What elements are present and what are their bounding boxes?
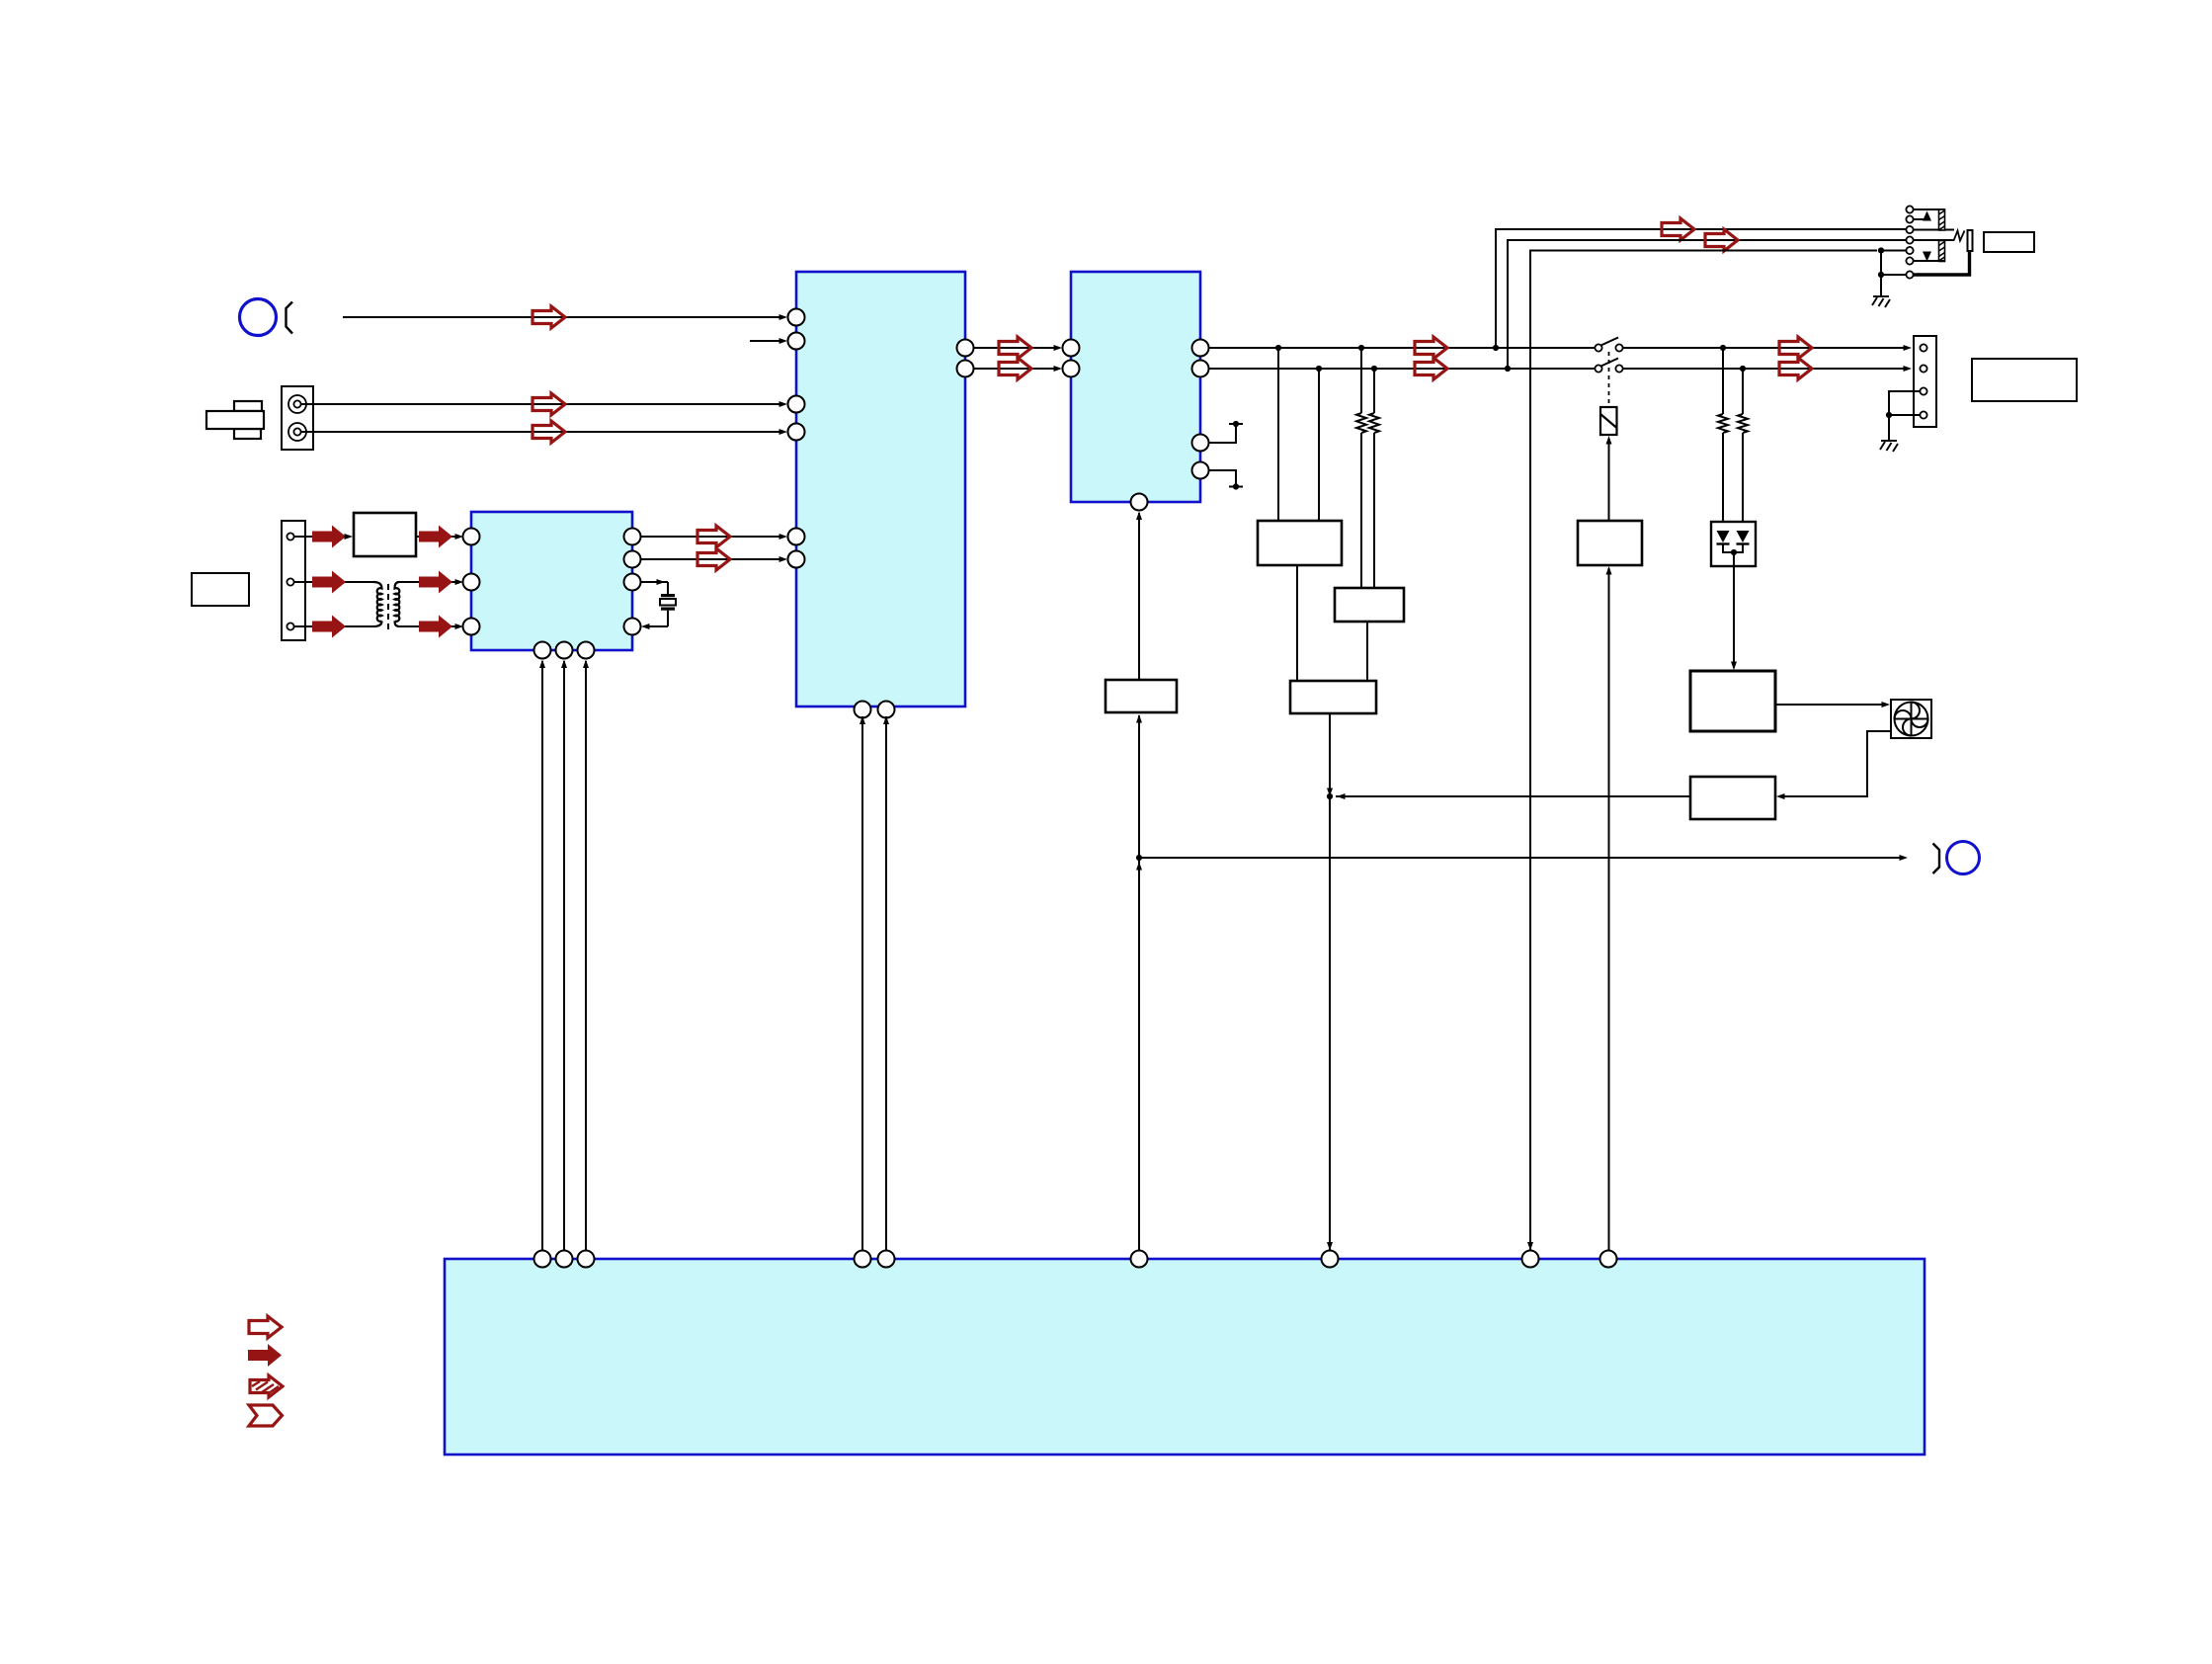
protection box C — [1290, 681, 1376, 713]
wire sysctl to display box lower — [1138, 861, 1140, 1251]
arrowhead into IC2 pin2 — [1054, 366, 1063, 372]
arrowhead protection mid — [1327, 789, 1333, 797]
signal arrow bus L out — [1779, 337, 1812, 359]
CN3 terminal 3 — [1920, 387, 1926, 394]
arrowhead into PS R4 — [641, 624, 650, 629]
signal arrow AC live — [533, 393, 565, 415]
arrowhead into fan control — [1731, 662, 1737, 671]
wire sysbox to PS x571 — [563, 661, 565, 1251]
wire box B down — [1366, 622, 1368, 681]
signal arrow R channel — [999, 358, 1031, 379]
signal arrow headphone R — [1705, 229, 1738, 251]
jack J1 terminal 1 — [1906, 206, 1913, 212]
IC1 pin1 — [788, 309, 805, 326]
CN3 terminal 1 — [1920, 344, 1926, 351]
power supply block PS — [471, 512, 632, 650]
AC inlet connector CN1 — [282, 386, 313, 450]
jack switch contact up — [1923, 211, 1931, 221]
signal arrow PS out 2 — [697, 548, 730, 570]
system control pin x1549 — [1522, 1251, 1539, 1268]
wire PS R3 to crystal — [641, 581, 669, 583]
signal arrow AC neutral — [533, 421, 565, 443]
output stage IC block IC2 — [1071, 272, 1200, 502]
tuner input circle — [240, 299, 277, 336]
node speaker gnd — [1886, 412, 1892, 418]
jack insulator bar bottom — [1939, 241, 1945, 262]
wire crystal return v — [667, 611, 669, 626]
wire bus R segment 2 — [1623, 368, 1907, 370]
arrowhead into IC2 pin1 — [1054, 345, 1063, 351]
temperature sense box — [1690, 777, 1775, 819]
wire bus R segment 1 — [1209, 368, 1596, 370]
node VCC stub — [1233, 421, 1239, 427]
diode D1a — [1717, 531, 1730, 544]
system control block — [445, 1259, 1925, 1455]
wire mute L lower — [1360, 433, 1362, 588]
wire speaker gnd drop — [1888, 415, 1890, 440]
jack gnd vertical — [1880, 251, 1882, 296]
display drive box — [1106, 680, 1177, 712]
legend signal path arrow — [249, 1316, 282, 1338]
speakers label box — [1972, 359, 2077, 401]
wire headphone det — [1530, 251, 1877, 1251]
wire temp feedback — [1336, 795, 1690, 797]
wire bus L segment 1 — [1209, 347, 1596, 349]
jack J1 terminal 7 — [1906, 271, 1913, 278]
wire mute L upper — [1360, 348, 1362, 413]
arrowhead into SP pin1 — [1904, 345, 1913, 351]
node protection junction — [1327, 793, 1333, 799]
legend hatched arrow — [250, 1375, 283, 1397]
IC1 pin R1 — [957, 340, 974, 357]
arrowhead into IC1 pin5 — [779, 534, 788, 540]
wire CN2-3 to transformer — [294, 625, 373, 627]
wire CN2-2 to transformer — [294, 581, 373, 583]
PS pin R3 — [624, 574, 641, 591]
PS pin B1 — [534, 642, 551, 659]
wire record out — [1139, 857, 1900, 859]
IC2 pin L1 — [1063, 340, 1080, 357]
signal arrow bus R mid — [1415, 358, 1447, 379]
wire thermal L lower — [1722, 433, 1724, 531]
jack J1 terminal 6 — [1906, 257, 1913, 264]
muting box B — [1335, 588, 1404, 622]
wire bus L segment 2 — [1623, 347, 1907, 349]
wire diode join — [1723, 544, 1743, 553]
IC1 left pin y566 — [788, 551, 805, 568]
wire stub IC1 pin2 — [750, 340, 784, 342]
transformer T1 primary exit — [373, 622, 382, 627]
arrowhead into IC1 pin4 — [779, 429, 788, 435]
IC1 pin B1 — [855, 702, 871, 718]
wire IC2 R4 stub — [1209, 470, 1237, 485]
arrowhead into IC1 pin6 — [779, 556, 788, 562]
jack wire t6 — [1914, 260, 1945, 262]
arrowhead into display box — [1136, 714, 1142, 723]
node bus L j4 — [1720, 345, 1726, 351]
switch S1 contact b — [1615, 344, 1622, 351]
node record out junction — [1136, 855, 1142, 861]
arrowhead into PS pin3 — [455, 624, 464, 629]
arrowhead headphone det into sysbox — [1527, 1242, 1533, 1251]
CN2 terminal 1 — [287, 533, 293, 540]
power arrow secondary bottom — [419, 616, 452, 638]
PS pin R1 — [624, 529, 641, 545]
wire protection to sysbox — [1329, 713, 1331, 1251]
system control pin x571 — [556, 1251, 573, 1268]
IC1 left pin y437 — [788, 424, 805, 441]
ground below speaker connector — [1880, 441, 1898, 452]
IC1 left pin y345 — [788, 333, 805, 350]
IC2 pin R3 — [1192, 435, 1209, 452]
resistor mute L — [1356, 413, 1366, 433]
legend out tag — [249, 1405, 283, 1426]
wire secondary bottom to PS pin3 — [399, 625, 460, 627]
wire diode out — [1733, 552, 1735, 668]
wire det L — [1277, 348, 1279, 521]
wire relay drive — [1608, 439, 1610, 521]
wire CN3-4 gnd — [1889, 414, 1920, 416]
CN3 terminal 2 — [1920, 365, 1926, 372]
wire secondary top to PS pin2 — [399, 581, 460, 583]
wire mute R upper — [1373, 369, 1375, 413]
signal arrow bus R out — [1779, 358, 1812, 379]
resistor thermal R — [1738, 414, 1748, 433]
CN3 terminal 4 — [1920, 411, 1926, 418]
power arrow secondary top — [419, 571, 452, 594]
wire filter to PS pin1 — [416, 536, 460, 538]
node jack gnd — [1878, 272, 1884, 278]
arrowhead crystal feed — [657, 579, 666, 585]
system control pin x1153 — [1131, 1251, 1148, 1268]
wire headphone L — [1496, 229, 1906, 348]
fan M1 — [1891, 700, 1931, 738]
wire IC1 R2 to IC2 — [974, 368, 1060, 370]
jack J1 terminal 2 — [1906, 215, 1913, 222]
node bus L j2 — [1358, 345, 1364, 351]
IC1 left pin y409 — [788, 396, 805, 413]
IC2 pin R1 — [1192, 340, 1209, 357]
PS pin B3 — [578, 642, 595, 659]
wire PS R2 to IC1 pin6 — [641, 558, 785, 560]
jack det to t5 — [1881, 250, 1906, 252]
IC2 pin R4 — [1192, 462, 1209, 479]
IC2 pin L2 — [1063, 361, 1080, 377]
system control pin x549 — [534, 1251, 551, 1268]
arrowhead into IC1 pin x873 — [860, 716, 865, 725]
PS pin L3 — [463, 619, 480, 635]
transformer T1 secondary exit — [395, 622, 400, 627]
node diode out — [1731, 549, 1737, 555]
jack J1 terminal 5 — [1906, 247, 1913, 254]
relay driver box — [1578, 521, 1642, 565]
relay coil RY1 — [1600, 407, 1617, 435]
power arrow primary top — [312, 571, 346, 594]
jack sleeve contact — [1968, 230, 1973, 251]
power arrow into filter — [312, 526, 346, 548]
wire IC2 R3 stub — [1209, 426, 1237, 443]
wire crystal return h — [644, 625, 668, 627]
power arrow primary bottom — [312, 616, 346, 638]
switch S1 lever — [1601, 338, 1619, 346]
arrowhead protection into sysbox — [1327, 1242, 1333, 1251]
AC inlet terminal 2 — [288, 423, 306, 441]
node bus R j1 — [1316, 366, 1322, 372]
arrowhead into relay driver — [1606, 566, 1612, 575]
transformer T1 core — [387, 584, 389, 630]
tuner bracket — [287, 302, 293, 334]
system control pin x593 — [578, 1251, 595, 1268]
legend power path arrow — [248, 1344, 282, 1367]
jack wire t1 — [1914, 208, 1945, 210]
arrowhead temp feedback — [1337, 793, 1346, 799]
arrowhead into IC1 pin1 — [779, 314, 788, 320]
wire tuner to IC1 pin1 — [343, 316, 784, 318]
node bus R j2 — [1371, 366, 1377, 372]
resistor thermal L — [1718, 414, 1728, 433]
wire sysctl to display box upper — [1138, 715, 1140, 858]
arrowhead into relay — [1606, 436, 1612, 445]
arrowhead sysctl mid — [1136, 862, 1142, 871]
PS pin B2 — [556, 642, 573, 659]
IC2 pin B1 — [1131, 494, 1148, 511]
record out circle — [1947, 842, 1980, 874]
system control pin x1628 — [1600, 1251, 1617, 1268]
IC1 pin4 — [788, 424, 805, 441]
wire det R — [1318, 369, 1320, 521]
wire headphone R — [1508, 240, 1906, 369]
headphones label box — [1984, 232, 2034, 252]
arrowhead into SP pin2 — [1904, 366, 1913, 372]
fan control box — [1690, 671, 1775, 731]
wire thermal L upper — [1722, 348, 1724, 414]
transformer T1 primary coil — [373, 582, 382, 622]
signal arrow bus L mid — [1415, 337, 1447, 359]
PS pin R2 — [624, 551, 641, 568]
jack wire t3 tip top — [1914, 229, 1955, 231]
wire crystal drop — [667, 582, 669, 594]
node GND stub — [1233, 483, 1239, 489]
signal arrow L channel — [999, 337, 1031, 359]
switch S1 contact a — [1595, 344, 1601, 351]
arrowhead into filter box — [345, 534, 354, 540]
system control pin x897 — [878, 1251, 895, 1268]
jack J1 terminal 4 — [1906, 236, 1913, 243]
speaker connector CN3 — [1914, 336, 1936, 427]
dual diode box D1 — [1711, 522, 1756, 566]
label box power input — [192, 573, 249, 606]
diode D1b — [1737, 531, 1750, 544]
signal arrow headphone L — [1662, 218, 1694, 240]
switch S2 lever — [1601, 359, 1619, 367]
arrowhead into fan — [1882, 702, 1891, 707]
jack gnd to t7 — [1881, 274, 1906, 276]
signal arrow tuner line — [533, 306, 565, 328]
jack wire t4 tip bottom — [1914, 239, 1955, 241]
tick GND stub — [1229, 486, 1243, 488]
wire fan sense — [1779, 731, 1891, 796]
wire thermal R lower — [1742, 433, 1744, 531]
wire thermal R upper — [1742, 369, 1744, 414]
wire AC neutral to IC1 pin4 — [301, 431, 784, 433]
system control pin x1346 — [1322, 1251, 1339, 1268]
wire display to IC2 — [1138, 513, 1140, 680]
arrowhead into PS pin1 — [455, 534, 464, 540]
PS pin R4 — [624, 619, 641, 635]
IC1 pin R2 — [957, 361, 974, 377]
IC2 pin R2 — [1192, 361, 1209, 377]
relay actuation dashed link — [1608, 352, 1610, 407]
arrowhead into IC2 B1 — [1136, 512, 1142, 521]
switch S2 contact a — [1595, 365, 1601, 372]
ground below jack — [1872, 296, 1890, 307]
AC inlet terminal 1 — [288, 395, 306, 413]
arrowhead into PS pin2 — [455, 579, 464, 585]
switch S2 contact b — [1615, 365, 1622, 372]
wire mute R lower — [1373, 433, 1375, 588]
arrowhead into IC1 pin2 — [779, 338, 788, 344]
AC plug — [206, 401, 264, 439]
system control pin x873 — [855, 1251, 871, 1268]
arrowhead record out — [1900, 855, 1909, 861]
wire sysbox to PS x593 — [585, 661, 587, 1251]
node bus L j1 — [1275, 345, 1281, 351]
wire PS R1 to IC1 pin5 — [641, 536, 785, 538]
wire sysbox to PS x549 — [541, 661, 543, 1251]
record out bracket — [1933, 844, 1940, 874]
IC1 left pin y321 — [788, 309, 805, 326]
CN2 terminal 3 — [287, 623, 293, 629]
line filter box — [354, 513, 416, 556]
arrowhead into PS pin x549 — [539, 660, 545, 669]
wire sysbox to IC1 x897 — [885, 716, 887, 1251]
jack J1 terminal 3 — [1906, 226, 1913, 233]
wire IC1 R1 to IC2 — [974, 347, 1060, 349]
IC1 pin3 — [788, 396, 805, 413]
wire box A down — [1296, 565, 1298, 681]
detector box A — [1258, 521, 1342, 565]
main amplifier IC block IC1 — [796, 272, 965, 707]
wire sysbox to IC1 x873 — [861, 716, 863, 1251]
crystal X1 — [660, 594, 676, 611]
IC1 pin5 — [788, 529, 805, 545]
IC1 pin6 — [788, 551, 805, 568]
wire CN3-3 ground loop — [1889, 391, 1920, 415]
IC1 pin B2 — [878, 702, 895, 718]
IC1 left pin y543 — [788, 529, 805, 545]
resistor mute R — [1369, 413, 1379, 433]
jack insulator bar top — [1939, 209, 1945, 230]
wire system control to relay driver — [1608, 568, 1610, 1251]
power arrow filter out — [419, 526, 452, 548]
node bus L j3 — [1493, 345, 1499, 351]
signal arrow PS out 1 — [697, 526, 730, 547]
IC1 pin2 — [788, 333, 805, 350]
wire AC live to IC1 pin3 — [301, 403, 784, 405]
jack switch contact down — [1923, 252, 1931, 262]
PS pin L1 — [463, 529, 480, 545]
node bus R j4 — [1740, 366, 1746, 372]
tick VCC stub — [1229, 423, 1243, 425]
arrowhead into temp box — [1776, 793, 1785, 799]
CN2 terminal 2 — [287, 578, 293, 585]
arrowhead into IC1 pin3 — [779, 401, 788, 407]
arrowhead into PS pin x593 — [583, 660, 589, 669]
jack plug tip squiggle — [1954, 231, 1965, 241]
transformer T1 secondary coil — [395, 582, 400, 622]
node bus R j3 — [1505, 366, 1511, 372]
node jack det — [1878, 247, 1884, 253]
jack wire t2 — [1914, 218, 1927, 220]
arrowhead into PS pin x571 — [561, 660, 567, 669]
arrowhead into IC1 pin x897 — [883, 716, 889, 725]
power terminal strip CN2 — [282, 521, 305, 640]
jack sleeve wire thick — [1914, 251, 1970, 275]
PS pin L2 — [463, 574, 480, 591]
wire fan drive — [1775, 704, 1887, 706]
wire CN2-1 to filter — [294, 536, 348, 538]
